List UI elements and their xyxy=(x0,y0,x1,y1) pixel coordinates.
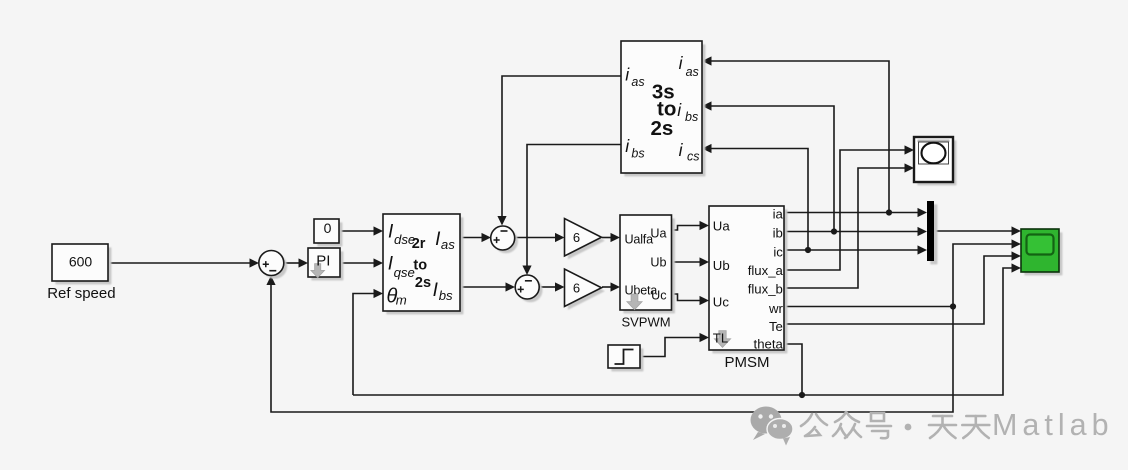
svg-text:I: I xyxy=(433,280,439,301)
svg-text:6: 6 xyxy=(573,230,580,245)
svg-text:cs: cs xyxy=(687,149,700,163)
svg-text:as: as xyxy=(631,75,644,89)
svg-text:ic: ic xyxy=(773,244,783,259)
svg-text:600: 600 xyxy=(69,254,93,270)
svg-text:to: to xyxy=(413,258,427,274)
svg-text:wr: wr xyxy=(768,301,784,316)
svg-text:PMSM: PMSM xyxy=(725,354,770,371)
svg-text:as: as xyxy=(441,237,455,252)
svg-text:2s: 2s xyxy=(651,117,674,140)
svg-text:Ref speed: Ref speed xyxy=(47,285,115,302)
svg-text:flux_b: flux_b xyxy=(748,282,783,297)
svg-text:Uc: Uc xyxy=(651,289,666,303)
svg-text:ib: ib xyxy=(773,226,783,241)
svg-text:Ub: Ub xyxy=(650,256,666,270)
svg-text:2s: 2s xyxy=(415,275,431,291)
svg-text:PI: PI xyxy=(316,253,330,270)
svg-text:bs: bs xyxy=(685,110,698,124)
svg-text:Ualfa: Ualfa xyxy=(625,232,654,246)
svg-text:SVPWM: SVPWM xyxy=(621,315,670,330)
svg-text:m: m xyxy=(396,292,407,307)
svg-text:bs: bs xyxy=(631,147,644,161)
svg-text:Te: Te xyxy=(769,319,783,334)
svg-text:Ub: Ub xyxy=(713,258,730,273)
svg-text:2r: 2r xyxy=(412,236,426,252)
svg-text:qse: qse xyxy=(394,265,415,280)
svg-text:theta: theta xyxy=(754,337,784,352)
svg-text:0: 0 xyxy=(324,220,332,236)
svg-text:flux_a: flux_a xyxy=(748,263,784,278)
svg-text:Ua: Ua xyxy=(650,226,666,240)
svg-text:as: as xyxy=(686,65,699,79)
svg-text:bs: bs xyxy=(439,288,453,303)
svg-text:Matlab: Matlab xyxy=(992,408,1114,442)
svg-text:6: 6 xyxy=(573,281,580,296)
svg-text:Ua: Ua xyxy=(713,219,731,234)
svg-text:TL: TL xyxy=(713,331,728,346)
svg-text:Uc: Uc xyxy=(713,294,730,309)
svg-text:ia: ia xyxy=(773,207,784,222)
